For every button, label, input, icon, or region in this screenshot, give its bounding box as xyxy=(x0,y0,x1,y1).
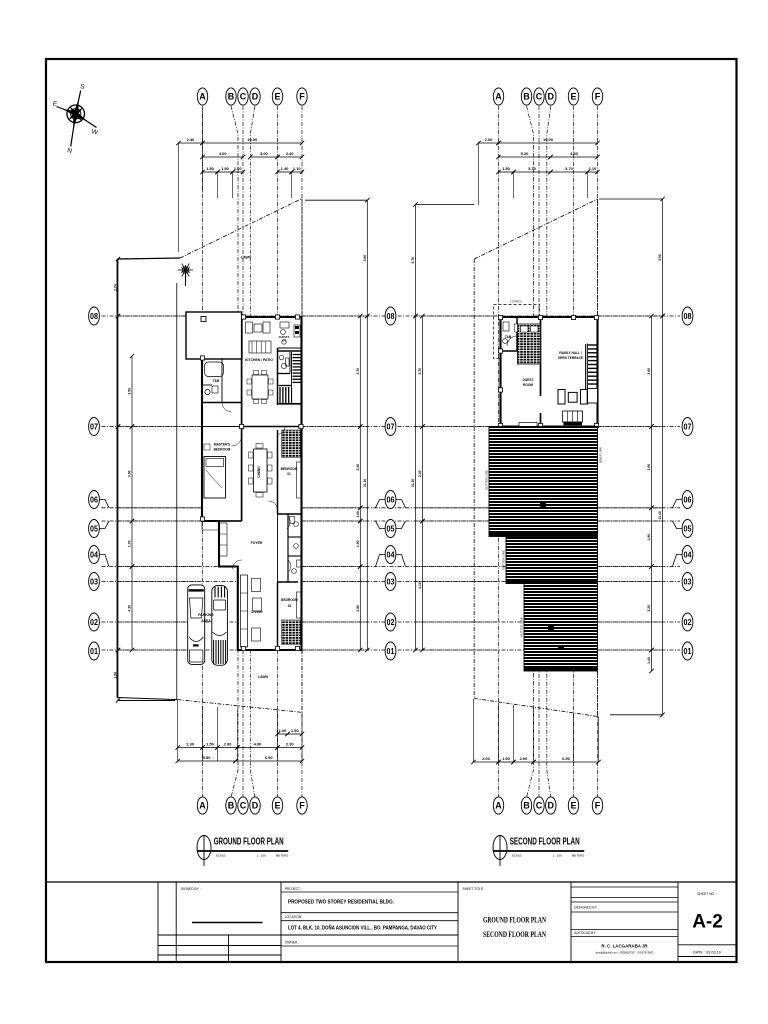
svg-text:1.70: 1.70 xyxy=(128,540,132,547)
svg-text:4.30: 4.30 xyxy=(128,605,132,612)
svg-text:08: 08 xyxy=(684,311,692,321)
svg-text:2.00: 2.00 xyxy=(520,756,529,761)
svg-text:A: A xyxy=(495,801,502,811)
svg-text:2.80: 2.80 xyxy=(356,605,360,612)
svg-text:GROUND FLOOR PLAN: GROUND FLOOR PLAN xyxy=(214,836,284,848)
svg-text:1.10: 1.10 xyxy=(293,166,302,171)
svg-text:C: C xyxy=(240,92,247,102)
column markers second floor xyxy=(498,315,598,427)
row grid bubbles xyxy=(89,307,693,660)
svg-text:SHEET TITLE: SHEET TITLE xyxy=(462,887,484,891)
svg-text:1.50: 1.50 xyxy=(291,728,300,733)
svg-text:DINING: DINING xyxy=(257,466,261,478)
family hall furniture xyxy=(558,390,588,426)
svg-text:3.60: 3.60 xyxy=(128,470,132,477)
svg-text:BEDROOM: BEDROOM xyxy=(281,598,298,602)
svg-text:4.00: 4.00 xyxy=(219,151,228,156)
svg-text:10.00: 10.00 xyxy=(543,137,554,142)
right plan lot boundary xyxy=(474,199,598,717)
T&B fixtures xyxy=(205,362,224,395)
svg-text:4.10: 4.10 xyxy=(418,582,422,589)
svg-text:F: F xyxy=(595,801,601,811)
svg-text:02: 02 xyxy=(288,604,292,608)
column grid lines left plan xyxy=(203,106,303,798)
svg-text:10.00: 10.00 xyxy=(247,137,258,142)
svg-text:A: A xyxy=(199,801,206,811)
entry steps xyxy=(202,520,219,530)
svg-text:2.60: 2.60 xyxy=(647,464,651,471)
svg-text:1.40: 1.40 xyxy=(647,657,651,664)
svg-text:01: 01 xyxy=(287,472,291,476)
svg-text:1.40: 1.40 xyxy=(281,166,290,171)
svg-text:AUTOCAD BY :: AUTOCAD BY : xyxy=(574,931,597,935)
svg-text:3.50: 3.50 xyxy=(128,388,132,395)
masters bedroom furniture xyxy=(204,444,226,498)
svg-text:2.74: 2.74 xyxy=(114,284,118,291)
svg-text:02: 02 xyxy=(387,617,395,627)
svg-text:GUTTER LINE: GUTTER LINE xyxy=(520,617,524,637)
svg-text:A: A xyxy=(495,92,502,102)
svg-text:07: 07 xyxy=(387,421,395,431)
svg-text:11.10: 11.10 xyxy=(363,479,367,487)
svg-text:C: C xyxy=(536,801,543,811)
svg-text:4.00: 4.00 xyxy=(254,742,263,747)
svg-text:A-2: A-2 xyxy=(692,912,723,933)
svg-text:F: F xyxy=(299,92,305,102)
ground floor room labels xyxy=(198,256,298,680)
second floor interior walls xyxy=(501,317,586,427)
living room furniture xyxy=(241,575,262,647)
svg-text:LOCATION:: LOCATION: xyxy=(285,915,303,919)
column grid bubbles top xyxy=(197,88,602,105)
svg-text:6.50: 6.50 xyxy=(562,756,571,761)
svg-text:3.70: 3.70 xyxy=(565,166,574,171)
tree at lot corner xyxy=(178,264,193,286)
column markers ground floor xyxy=(200,315,303,651)
stairs ground floor xyxy=(278,351,302,404)
svg-text:LAWN: LAWN xyxy=(241,256,252,260)
svg-text:PROPOSED TWO STOREY RESIDENTIA: PROPOSED TWO STOREY RESIDENTIAL BLDG. xyxy=(288,900,394,906)
svg-text:F: F xyxy=(595,92,601,102)
right side vertical dimensions xyxy=(599,197,665,717)
svg-text:DATE : 03.03.19: DATE : 03.03.19 xyxy=(693,951,721,955)
svg-text:2.40: 2.40 xyxy=(356,464,360,471)
svg-text:METERS: METERS xyxy=(276,854,289,858)
svg-text:5.20: 5.20 xyxy=(521,151,530,156)
svg-text:T&B: T&B xyxy=(505,335,512,339)
svg-text:E: E xyxy=(274,801,280,811)
svg-text:1 : 100: 1 : 100 xyxy=(257,854,267,858)
svg-text:D: D xyxy=(252,801,259,811)
svg-text:3.70: 3.70 xyxy=(356,368,360,375)
svg-text:2.30: 2.30 xyxy=(186,742,195,747)
svg-text:E: E xyxy=(570,801,576,811)
svg-text:5.80: 5.80 xyxy=(203,755,212,760)
car 2 jeep xyxy=(212,585,228,665)
svg-text:1.00: 1.00 xyxy=(356,511,360,518)
svg-text:FOYER: FOYER xyxy=(251,541,263,545)
svg-text:E: E xyxy=(570,92,576,102)
roof section 3 xyxy=(524,584,598,672)
svg-text:1.00: 1.00 xyxy=(234,166,243,171)
svg-text:OPEN TERRACE: OPEN TERRACE xyxy=(558,356,583,360)
svg-text:1 : 100: 1 : 100 xyxy=(553,854,563,858)
bottom dimension rows left plan xyxy=(176,700,305,763)
svg-text:03: 03 xyxy=(387,576,395,586)
svg-text:01: 01 xyxy=(684,646,692,656)
svg-text:GROUND FLOOR PLAN: GROUND FLOOR PLAN xyxy=(483,916,546,925)
svg-text:1.50: 1.50 xyxy=(221,166,230,171)
svg-text:3.70: 3.70 xyxy=(418,368,422,375)
svg-text:B: B xyxy=(523,801,530,811)
svg-text:2.40: 2.40 xyxy=(418,470,422,477)
title block xyxy=(46,882,737,961)
guest room door + step xyxy=(539,396,542,413)
ground floor plan title xyxy=(197,835,288,866)
svg-text:03: 03 xyxy=(90,576,98,586)
left plan lot boundary xyxy=(117,199,302,713)
svg-text:2.00: 2.00 xyxy=(224,742,233,747)
bottom dimension row right plan xyxy=(471,699,600,764)
svg-text:11.40: 11.40 xyxy=(658,511,662,519)
svg-text:06: 06 xyxy=(90,494,98,504)
svg-text:02: 02 xyxy=(90,617,98,627)
svg-text:06: 06 xyxy=(684,494,692,504)
svg-text:GUTTER LINE: GUTTER LINE xyxy=(485,470,489,490)
svg-text:GUEST: GUEST xyxy=(523,378,534,382)
svg-text:AREA: AREA xyxy=(201,619,211,623)
svg-text:1.50: 1.50 xyxy=(206,166,215,171)
svg-text:01: 01 xyxy=(387,646,395,656)
svg-text:OWNER :: OWNER : xyxy=(285,941,300,945)
small toilet fixtures near stairs xyxy=(279,355,289,368)
svg-text:1.10: 1.10 xyxy=(589,166,598,171)
svg-text:MASTER'S: MASTER'S xyxy=(214,443,230,447)
svg-text:6.50: 6.50 xyxy=(265,755,274,760)
svg-text:C: C xyxy=(536,92,543,102)
column grid lines right plan xyxy=(499,106,598,798)
svg-text:1.00: 1.00 xyxy=(279,728,288,733)
second floor stairs right xyxy=(587,344,597,404)
svg-text:METERS: METERS xyxy=(572,854,585,858)
svg-text:3.70: 3.70 xyxy=(528,166,537,171)
svg-text:1.90: 1.90 xyxy=(647,534,651,541)
second floor bed (guest) xyxy=(518,324,541,364)
svg-text:T&B: T&B xyxy=(213,379,220,383)
second floor plan title xyxy=(493,835,584,866)
svg-text:05: 05 xyxy=(684,523,692,533)
svg-text:SCALE: SCALE xyxy=(216,854,226,858)
top dimension rows right plan xyxy=(476,137,599,205)
svg-text:1.50: 1.50 xyxy=(502,756,511,761)
svg-text:BEDROOM: BEDROOM xyxy=(214,448,231,452)
svg-text:R. C. LACGARABA JR: R. C. LACGARABA JR xyxy=(601,944,648,949)
svg-text:07: 07 xyxy=(684,421,692,431)
svg-text:LIVING: LIVING xyxy=(251,610,263,614)
ground floor building outline xyxy=(202,317,302,650)
svg-text:PROJECT :: PROJECT : xyxy=(285,887,302,891)
svg-text:05: 05 xyxy=(387,523,395,533)
signature line xyxy=(192,922,263,924)
svg-text:05: 05 xyxy=(90,523,98,533)
dining table xyxy=(249,444,273,498)
svg-text:DESIGNED BY :: DESIGNED BY : xyxy=(574,906,598,910)
svg-text:07: 07 xyxy=(90,421,98,431)
svg-text:1.50: 1.50 xyxy=(114,672,118,679)
svg-text:B: B xyxy=(228,92,235,102)
T&B second floor fixtures xyxy=(503,322,517,346)
svg-text:3.60: 3.60 xyxy=(647,368,651,375)
svg-text:3.20: 3.20 xyxy=(647,605,651,612)
svg-text:C: C xyxy=(240,801,247,811)
second floor room labels xyxy=(505,335,583,387)
second floor dashed projection xyxy=(494,305,540,359)
roof section 1 xyxy=(489,427,598,537)
bedroom01 closet xyxy=(297,462,302,498)
svg-text:D: D xyxy=(548,92,555,102)
bedroom02 closet xyxy=(297,592,302,618)
svg-text:04: 04 xyxy=(387,549,395,559)
svg-text:SCALE: SCALE xyxy=(512,854,522,858)
svg-text:GUESTS: GUESTS xyxy=(279,335,290,339)
svg-text:1.50: 1.50 xyxy=(502,166,511,171)
svg-text:SIGNED BY :: SIGNED BY : xyxy=(181,887,201,891)
svg-text:PARKING: PARKING xyxy=(198,613,214,617)
svg-text:KITCHEN / PATIO: KITCHEN / PATIO xyxy=(245,358,273,362)
roof section 2 xyxy=(506,537,598,584)
svg-text:A: A xyxy=(199,92,206,102)
svg-text:lacsdjr@gmail.com : 0920818720: lacsdjr@gmail.com : 09208187207 : 091576… xyxy=(595,951,654,955)
car 1 sedan xyxy=(188,585,205,665)
svg-text:3.70: 3.70 xyxy=(411,257,415,264)
svg-text:03: 03 xyxy=(684,576,692,586)
svg-text:BEDROOM: BEDROOM xyxy=(281,467,298,471)
svg-text:SECOND FLOOR PLAN: SECOND FLOOR PLAN xyxy=(483,930,546,939)
svg-text:04: 04 xyxy=(90,549,98,559)
svg-text:2.40: 2.40 xyxy=(286,151,295,156)
svg-text:11.10: 11.10 xyxy=(411,479,415,487)
svg-text:4.80: 4.80 xyxy=(570,151,579,156)
svg-text:2.00: 2.00 xyxy=(482,756,491,761)
svg-text:3.90: 3.90 xyxy=(658,254,662,261)
svg-text:B: B xyxy=(228,801,235,811)
svg-text:06: 06 xyxy=(387,494,395,504)
foyer cabinets xyxy=(220,523,228,556)
svg-text:2.46: 2.46 xyxy=(187,137,196,142)
left side vertical dimensions xyxy=(114,257,201,703)
svg-text:F: F xyxy=(299,801,305,811)
door arcs xyxy=(222,403,294,572)
top dimension rows left plan xyxy=(176,110,304,252)
svg-text:3.90: 3.90 xyxy=(363,255,367,262)
column grid bubbles bottom xyxy=(197,797,602,814)
svg-text:08: 08 xyxy=(90,311,98,321)
svg-text:2.30: 2.30 xyxy=(286,742,295,747)
stair rail dark hatch lower xyxy=(282,620,301,644)
terrace rect top-left xyxy=(186,312,242,359)
stair rail dark hatch upper xyxy=(282,430,301,457)
svg-text:ROOM: ROOM xyxy=(523,383,533,387)
svg-text:D: D xyxy=(252,92,259,102)
roof vent marks xyxy=(540,503,546,507)
svg-text:GUTTER LINE: GUTTER LINE xyxy=(502,550,506,570)
kitchen furniture xyxy=(246,322,274,404)
svg-text:1.50: 1.50 xyxy=(356,540,360,547)
svg-text:SHEET NO. :: SHEET NO. : xyxy=(697,892,717,896)
middle vertical dimensions (right of left plan) xyxy=(303,198,370,652)
svg-text:2.00: 2.00 xyxy=(485,137,494,142)
svg-text:SECOND FLOOR PLAN: SECOND FLOOR PLAN xyxy=(510,836,580,848)
svg-text:04: 04 xyxy=(684,549,692,559)
svg-text:KIT: KIT xyxy=(282,339,287,343)
svg-text:02: 02 xyxy=(684,617,692,627)
svg-text:LT. PROJ: LT. PROJ xyxy=(510,300,522,304)
toilet fixtures rows 05-03 xyxy=(290,517,302,574)
svg-text:ROOF LINE: ROOF LINE xyxy=(599,447,603,463)
vertical dimensions left of right plan xyxy=(411,202,497,652)
second floor building outline xyxy=(501,317,598,427)
svg-text:LAWN: LAWN xyxy=(258,675,269,679)
svg-text:08: 08 xyxy=(387,311,395,321)
svg-text:01: 01 xyxy=(90,646,98,656)
svg-text:FAMILY HALL /: FAMILY HALL / xyxy=(559,351,582,355)
svg-text:3.00: 3.00 xyxy=(260,151,269,156)
guests kit fixtures xyxy=(280,322,300,344)
svg-text:E: E xyxy=(274,92,280,102)
svg-text:1.50: 1.50 xyxy=(206,742,215,747)
border frame xyxy=(46,59,737,962)
svg-text:B: B xyxy=(523,92,530,102)
title block texts xyxy=(181,887,723,955)
row grid lines 01-08 xyxy=(102,316,681,650)
svg-text:D: D xyxy=(548,801,555,811)
ground floor interior walls xyxy=(202,348,302,650)
compass rose xyxy=(67,105,85,123)
svg-text:LOT 4, BLK. 10, DOÑA ASUNCION: LOT 4, BLK. 10, DOÑA ASUNCION VILL., BO.… xyxy=(288,925,437,932)
